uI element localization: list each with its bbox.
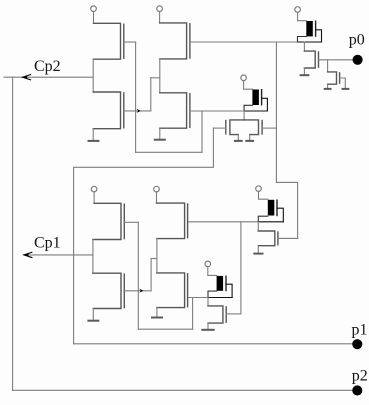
- transistor Q6 pass-left channel: [230, 120, 244, 135]
- wire D2 source: [244, 105, 252, 111]
- transistor Q15 channel: [93, 203, 121, 239]
- transistor Q2 upper-right load channel: [160, 23, 187, 59]
- transistor Q17 lower-left driver channel: [93, 273, 121, 308]
- depletion load D1 drain wire: [298, 12, 307, 20]
- wire Q1 output node vertical: [92, 59, 94, 92]
- transistor Q15 gate: [123, 204, 125, 238]
- ground Q10 source: [327, 84, 329, 89]
- transistor Q3 gate: [123, 93, 125, 128]
- depletion load D3 gate: [276, 200, 278, 215]
- transistor Q2 gate: [189, 24, 191, 58]
- transistor Q1 gate: [123, 24, 125, 58]
- transistor Q4 gate: [189, 94, 191, 128]
- transistor Q1 upper-left load drain stub: [93, 12, 95, 24]
- wire Q16 output node vertical: [156, 239, 158, 273]
- ground Q4 source: [159, 128, 161, 140]
- transistor Q6 gate: [225, 121, 227, 134]
- wire Q9 gate to p0 terminal: [319, 59, 353, 61]
- depletion load D2 gate: [261, 90, 263, 105]
- ground Q10 gate: [342, 88, 350, 90]
- wire jog y=258.5: [151, 258, 157, 260]
- wire D2 source to pass pair: [243, 111, 245, 120]
- ground Q17 source: [92, 309, 94, 321]
- transistor Q10 channel: [328, 72, 337, 84]
- power terminal VDD circle D1: [295, 7, 301, 13]
- wire left vertical bus (Cp2/p2): [12, 77, 14, 390]
- depletion load D2 channel bar: [252, 90, 259, 106]
- transistor Q4 upper-right driver channel: [160, 93, 187, 128]
- wire vertical x=150.8: [150, 78, 152, 111]
- depletion load D4 gate: [225, 276, 227, 290]
- svg-text:p0: p0: [349, 32, 365, 49]
- wire node42 horizontal (Q2 gate to depletion load D1): [190, 41, 298, 43]
- wire cross-couple vertical x=135.6: [135, 42, 137, 152]
- wire cross-couple vertical x=138.3: [137, 222, 139, 329]
- wire vertical x=151.1: [150, 259, 152, 291]
- wire Q2 output node vertical: [159, 59, 161, 93]
- depletion load D1 channel bar: [306, 21, 313, 36]
- transistor Q18 gate: [187, 274, 189, 307]
- wire node42 down leg x=276.4: [276, 42, 297, 238]
- depletion load D3 drain wire: [259, 191, 268, 199]
- wire Q17 gate arm: [124, 290, 151, 292]
- transistor Q9 p0-driver drain wire: [303, 42, 305, 51]
- wire Cp2 output line: [4, 76, 93, 78]
- transistor Q14 gate: [225, 307, 227, 322]
- power terminal VDD circle D3: [256, 186, 262, 192]
- svg-text:p1: p1: [352, 321, 368, 338]
- transistor Q2 upper-right load drain stub: [159, 12, 161, 23]
- ground Q7 source: [249, 135, 251, 141]
- wire Q7 gate lead: [262, 127, 276, 129]
- transistor Q3 upper-left driver channel: [93, 92, 120, 129]
- wire Q1 gate arm: [124, 41, 136, 43]
- transistor Q1 upper-left load channel: [93, 23, 120, 59]
- wire p1 line: [74, 343, 353, 345]
- transistor Q10 gate: [339, 73, 341, 83]
- ground Q3 source: [92, 129, 94, 141]
- wire jog y=152: [136, 151, 202, 153]
- wire D4 gate tie: [226, 284, 232, 297]
- wire D3 gate tie: [277, 208, 283, 222]
- node p2 terminal dot: [352, 385, 362, 395]
- wire Q3 gate arm: [124, 110, 151, 112]
- depletion load D1 gate: [315, 21, 317, 36]
- depletion load D2 drain wire: [244, 81, 253, 90]
- transistor Q7 pass-right channel: [244, 120, 259, 135]
- wire Q10 drain tap: [327, 60, 329, 72]
- transistor Q12 drain wire: [257, 222, 259, 231]
- wire Q14 gate lead: [226, 313, 241, 315]
- wire D1 source: [298, 37, 307, 43]
- power terminal VDD circle Q15: [91, 186, 97, 192]
- transistor Q9 gate: [318, 52, 320, 67]
- node Cp1 arrowhead: [24, 252, 33, 258]
- wire D1 gate tie: [316, 30, 322, 42]
- transistor Q16 gate: [187, 204, 189, 238]
- depletion load D4 channel bar: [217, 276, 224, 291]
- wire Cp1 output line: [24, 254, 93, 256]
- transistor Q16 channel: [157, 203, 185, 239]
- transistor Q18 lower-right driver channel: [157, 273, 185, 308]
- svg-text:Cp1: Cp1: [34, 235, 61, 252]
- power terminal VDD circle D4: [205, 261, 211, 267]
- depletion load D4 drain wire: [208, 267, 217, 276]
- transistor Q17 gate: [123, 274, 125, 308]
- wire vertical x=192.6: [192, 298, 194, 330]
- ground Q14 source: [207, 323, 209, 330]
- transistor Q12 gate: [277, 232, 279, 245]
- wire Q12 gate lead: [278, 237, 298, 239]
- ground Q12 source: [257, 246, 259, 254]
- wire p2 line: [13, 389, 353, 391]
- ground Q9 source: [303, 68, 305, 75]
- node p0 terminal dot: [353, 55, 363, 65]
- wire node111 horizontal (Q4 gate to depletion load D2): [190, 110, 244, 112]
- wire vertical x=202: [201, 111, 203, 152]
- wire Q15 output node vertical: [92, 240, 94, 274]
- node signal arrow into Q3 gate wire: [137, 109, 141, 113]
- wire D4 source: [208, 291, 217, 297]
- power terminal VDD circle Q1: [91, 6, 97, 12]
- wire jog y=329.2: [138, 328, 192, 330]
- wire node221 horizontal: [188, 221, 259, 223]
- wire node298 horizontal: [188, 297, 208, 299]
- transistor Q7 gate: [261, 121, 263, 134]
- depletion load D3 channel bar: [268, 200, 275, 216]
- ground Q18 source: [156, 308, 158, 318]
- power terminal VDD circle Q2: [157, 6, 163, 12]
- wire p1 to Q6 gate routing: [74, 128, 214, 344]
- transistor Q15 lower-left load drain stub: [93, 192, 95, 203]
- node Cp2 arrowhead: [23, 74, 32, 80]
- wire Q6 gate lead: [213, 127, 225, 129]
- wire Q10 gate tie to ground: [340, 78, 346, 89]
- wire jog y=77.8: [151, 77, 160, 79]
- wire D3 source: [258, 216, 268, 222]
- transistor Q9 channel: [304, 51, 315, 68]
- transistor Q14 channel: [208, 306, 223, 323]
- power terminal VDD circle Q16: [154, 186, 160, 192]
- transistor Q12 channel: [258, 231, 275, 246]
- svg-text:p2: p2: [352, 368, 368, 385]
- transistor Q16 lower-right load drain stub: [156, 192, 158, 203]
- ground Q6 source: [237, 135, 239, 141]
- svg-text:Cp2: Cp2: [34, 58, 61, 75]
- power terminal VDD circle D2: [241, 75, 247, 81]
- wire node221 down leg x=240.9: [240, 222, 242, 314]
- transistor Q14 drain wire: [207, 298, 209, 306]
- node signal arrow into Q17 gate wire: [139, 289, 143, 293]
- wire Q15 gate arm: [124, 221, 138, 223]
- node p1 terminal dot: [352, 339, 362, 349]
- wire D2 gate tie: [262, 98, 268, 111]
